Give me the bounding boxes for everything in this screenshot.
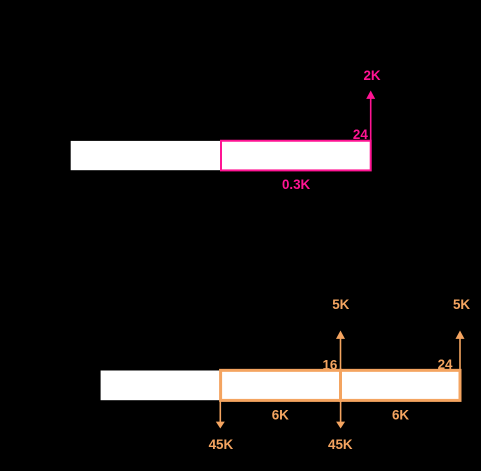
svg-text:16: 16 — [322, 358, 337, 373]
svg-text:5K: 5K — [332, 297, 349, 312]
svg-text:6K: 6K — [392, 407, 409, 422]
svg-text:5K: 5K — [453, 297, 470, 312]
svg-text:2K: 2K — [363, 68, 380, 83]
svg-text:24: 24 — [438, 357, 453, 372]
svg-text:0.3K: 0.3K — [282, 177, 311, 192]
svg-text:45K: 45K — [209, 437, 234, 452]
svg-text:24: 24 — [353, 127, 368, 142]
svg-text:45K: 45K — [328, 437, 353, 452]
svg-text:6K: 6K — [272, 407, 289, 422]
